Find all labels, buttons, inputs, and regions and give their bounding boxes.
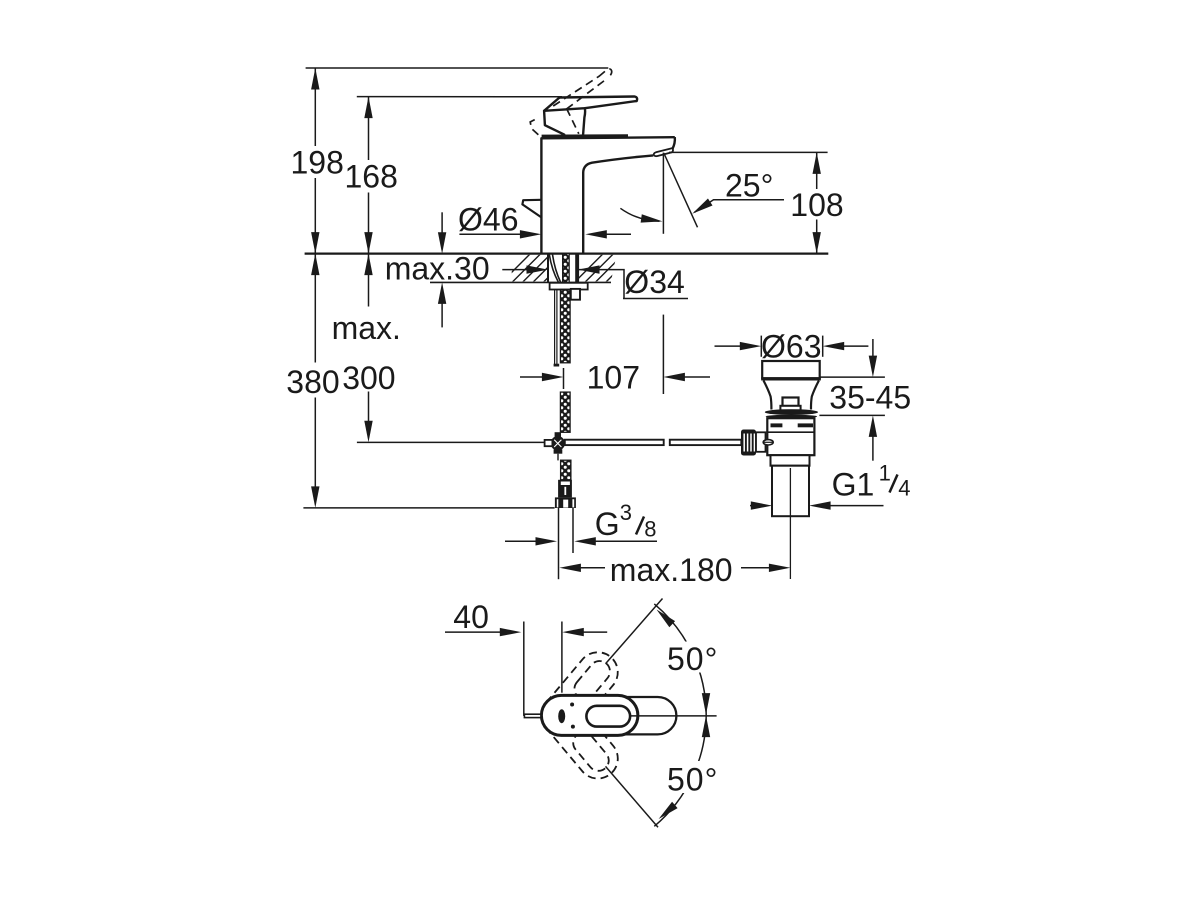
pop-up rod horizontal right segment	[670, 440, 742, 445]
hose curves in hole	[549, 255, 558, 283]
hose end nut G3/8	[555, 497, 576, 508]
set screw	[763, 440, 773, 445]
mixer opening dark	[558, 709, 565, 723]
drain flange	[765, 409, 818, 415]
extension lines below nut	[558, 508, 560, 579]
knob connector	[756, 432, 766, 452]
pop-up rod ball joint	[555, 432, 561, 438]
svg-text:Ø63: Ø63	[761, 329, 821, 365]
dimension max.300 line	[368, 254, 370, 423]
svg-text:Ø46: Ø46	[458, 202, 518, 238]
svg-text:25°: 25°	[725, 168, 773, 204]
dimension 168	[368, 97, 370, 254]
mounting nut	[571, 289, 580, 300]
mounting washer below counter	[550, 283, 588, 290]
angle arcs	[654, 604, 706, 715]
threaded mounting rod	[554, 290, 556, 365]
counter hole edges	[547, 254, 549, 283]
svg-text:Ø34: Ø34	[624, 264, 684, 300]
drain plug square knob	[783, 398, 799, 407]
dimension 380 line	[314, 254, 316, 488]
svg-text:198: 198	[291, 145, 344, 181]
svg-text:max.: max.	[332, 310, 401, 346]
shank wall section	[575, 254, 579, 283]
svg-text:max.180: max.180	[610, 552, 733, 588]
spout stadium top view	[556, 697, 676, 734]
svg-text:168: 168	[345, 159, 398, 195]
tailpipe centerline	[789, 468, 791, 579]
faucet handle dashed raised position	[530, 69, 612, 137]
dimension max.180	[559, 564, 581, 572]
svg-text:50°: 50°	[667, 641, 718, 677]
braided hose lower run	[560, 392, 570, 432]
380 bottom reference line	[303, 507, 554, 509]
extension line 168	[357, 96, 562, 98]
valve step section	[771, 455, 810, 466]
svg-text:380: 380	[286, 364, 339, 400]
drain valve body	[767, 418, 814, 455]
knurled adjuster knob	[741, 430, 756, 456]
extension line 198 top	[306, 67, 609, 69]
water stream vertical reference	[662, 153, 664, 234]
svg-text:108: 108	[790, 187, 843, 223]
dimension D63	[715, 345, 742, 347]
svg-text:G: G	[595, 506, 620, 542]
braided hose in hole	[563, 254, 570, 283]
dimension 107	[520, 376, 545, 378]
drain tailpipe	[772, 466, 809, 517]
handle stadium top view	[541, 695, 638, 735]
braided hose below ball joint	[561, 460, 571, 480]
dashed handle positions rotated	[533, 644, 626, 787]
25 deg label leader	[695, 200, 785, 212]
svg-text:1: 1	[879, 461, 891, 486]
centerline	[630, 715, 716, 717]
aerator spout tip	[654, 148, 673, 156]
svg-text:107: 107	[587, 360, 640, 396]
svg-text:4: 4	[898, 476, 910, 501]
dimension D34	[502, 269, 528, 271]
svg-text:max.30: max.30	[385, 251, 490, 287]
pop-up rod horizontal left segment	[565, 440, 664, 445]
svg-text:8: 8	[644, 516, 656, 541]
angle arc	[620, 208, 659, 221]
svg-text:300: 300	[342, 360, 395, 396]
dimension 108	[669, 151, 828, 153]
max300 reference line	[357, 441, 551, 443]
dimension 35-45	[820, 376, 885, 378]
hot/cold dots	[570, 703, 574, 707]
faucet handle solid	[544, 97, 637, 135]
countertop section	[305, 252, 829, 254]
lever opening	[586, 706, 630, 727]
overflow slots	[771, 423, 783, 427]
svg-text:50°: 50°	[667, 762, 718, 798]
dimension 198	[314, 68, 316, 254]
hose end connector	[558, 480, 572, 498]
dimension max.30	[441, 212, 443, 233]
svg-text:G1: G1	[832, 467, 875, 503]
drain valve D63 extension ticks	[760, 336, 762, 357]
pop-up knob tab on body	[522, 200, 541, 218]
limiter tab	[524, 714, 541, 717]
svg-text:3: 3	[620, 500, 632, 525]
svg-text:40: 40	[453, 599, 489, 635]
dimension G3/8	[505, 540, 537, 542]
50 deg rays	[606, 599, 663, 664]
drain valve funnel	[764, 381, 772, 410]
drain valve top cylinder	[762, 361, 820, 378]
faucet body	[541, 137, 675, 254]
svg-text:35-45: 35-45	[829, 380, 911, 416]
water stream line 25 deg	[664, 153, 698, 227]
dimension G1 1/4	[750, 505, 752, 507]
braided hose upper run	[560, 290, 570, 363]
40 extension lines	[523, 622, 525, 716]
